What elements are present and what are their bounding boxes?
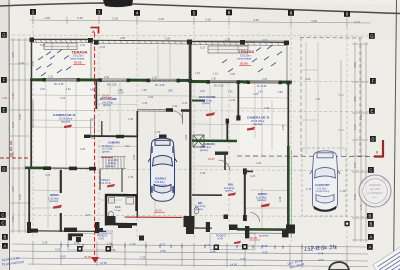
left outer wall	[30, 80, 32, 168]
door arc hol	[219, 160, 231, 172]
sheet border right	[394, 0, 397, 270]
camara inner walls	[101, 121, 103, 137]
scan blob top	[103, 0, 133, 7]
inner right dim chain x 340-348	[338, 60, 344, 156]
dim text rows under front wall	[54, 84, 267, 88]
white room patches	[33, 82, 93, 166]
chimney shaft x-box	[193, 135, 204, 147]
small walls near stairs/hol	[99, 169, 101, 191]
scan shading left band	[0, 0, 8, 270]
bottom tick marks row	[61, 244, 336, 250]
wall above camara	[85, 135, 137, 137]
top wall between terraces	[91, 39, 189, 42]
bottom-left tilted blue text	[1, 255, 24, 266]
terrace hatch marks	[36, 50, 71, 77]
dims in terrace	[31, 43, 86, 66]
right entrance porch	[210, 234, 255, 250]
scan top edge line	[0, 3, 400, 14]
wall x=225 upper hol	[224, 155, 226, 170]
scattered dims	[45, 77, 346, 217]
bench on terrace	[44, 43, 77, 50]
kitchen green stub	[192, 100, 205, 102]
carport dashed outline	[302, 148, 346, 216]
bottom-right tilted paper	[373, 242, 400, 270]
birou right wall (with door gap)	[60, 170, 62, 193]
red corner bracket	[374, 140, 383, 157]
garage door red	[125, 216, 183, 218]
scan wash center band	[138, 30, 208, 270]
center divider	[189, 44, 191, 82]
wc top wall	[192, 194, 222, 196]
garage left wall	[136, 111, 138, 137]
sp.tehnic strip	[245, 226, 249, 238]
bottom dim chains	[12, 241, 368, 268]
dark blob bottom edge	[329, 262, 349, 270]
kitchen counter	[91, 119, 95, 138]
top markers	[30, 9, 350, 17]
door arc into hall	[173, 111, 183, 121]
garage top wall w/ caps	[137, 108, 166, 110]
left dim chain	[10, 38, 29, 233]
stairs block	[101, 157, 126, 169]
scan wash terrace band	[243, 45, 265, 95]
top dim chain	[30, 16, 370, 27]
section line right unit	[244, 41, 246, 84]
hatch	[222, 46, 282, 73]
tilted blue scribble near bottom right	[287, 258, 305, 270]
scan wash top right	[240, 4, 400, 40]
bathroom heavy walls	[105, 194, 137, 197]
bottom walls	[29, 230, 106, 233]
section line A left unit	[94, 33, 96, 256]
cap at kitchen wall top junction	[94, 41, 99, 45]
right outer wall	[287, 82, 289, 146]
bench	[208, 46, 248, 53]
red dashed left boundary	[0, 141, 30, 158]
right dim chain	[352, 42, 368, 242]
left entrance porch	[68, 233, 83, 240]
faint grid dashed lines	[7, 15, 370, 243]
scan wash right area	[290, 40, 370, 170]
wc toilet	[194, 207, 199, 214]
interior faint dim lines	[31, 42, 318, 228]
long dashed line to red bracket	[237, 155, 379, 158]
right markers	[367, 33, 376, 250]
wall camera/bucatarie	[95, 80, 97, 109]
door arc wc2	[250, 213, 260, 223]
birou left wall w/ caps	[244, 170, 246, 220]
green wall mid (birou top)	[25, 167, 44, 170]
camara walls	[192, 139, 237, 142]
left markers	[0, 32, 8, 249]
sheet border left	[8, 0, 11, 270]
bottom walls right unit	[237, 228, 290, 231]
